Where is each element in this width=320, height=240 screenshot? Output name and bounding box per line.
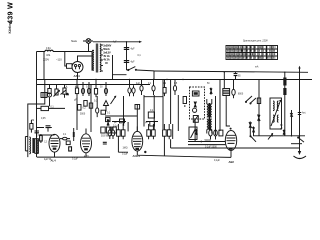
wire filter cap branch <box>126 42 128 70</box>
tick marks right column <box>290 66 301 117</box>
node dots on bus <box>76 71 285 80</box>
diode arrow D1 <box>210 88 212 95</box>
capacitor C12 <box>140 80 143 96</box>
switch S1 mains <box>127 67 137 71</box>
svg-text:5000: 5000 <box>80 114 86 116</box>
triangle indicator <box>104 101 109 112</box>
wire mains top <box>37 51 93 53</box>
resistor R2 <box>75 80 78 97</box>
wire ground link <box>291 143 302 145</box>
wire bias feed <box>28 80 45 158</box>
capacitor C1 4uF <box>124 48 135 51</box>
rectifier tube V1 AZ11 <box>72 62 83 79</box>
wire screen bus <box>37 79 312 81</box>
resistor R1 <box>67 64 73 69</box>
labels under tubes <box>44 134 79 161</box>
wire left of V5 <box>188 142 226 145</box>
node dot dark <box>144 151 146 153</box>
svg-text:AL4: AL4 <box>51 158 57 162</box>
resistor R3 <box>94 80 97 98</box>
pair P5 <box>209 127 218 140</box>
band switch section verticals <box>259 67 300 136</box>
svg-text:0,1µF: 0,1µF <box>122 154 129 156</box>
diode D5 <box>107 119 109 126</box>
resistor R8 dark <box>283 78 286 86</box>
svg-text:Spannungen gem. 220V: Spannungen gem. 220V <box>243 41 268 43</box>
transformer T1 secondary <box>100 44 101 72</box>
arrow variable <box>111 96 116 104</box>
vertical droppers <box>144 80 178 132</box>
fuse F1 <box>45 47 53 57</box>
wire cathode line <box>37 156 110 158</box>
wire HT rail 2 <box>154 71 308 72</box>
oval C10 <box>128 80 131 97</box>
svg-text:ACH1: ACH1 <box>133 154 141 158</box>
secondary tap stubs <box>101 45 103 71</box>
wire plate link <box>38 133 54 136</box>
svg-text:~110: ~110 <box>56 58 62 62</box>
capacitor C5 <box>104 82 107 96</box>
svg-text:T.A.: T.A. <box>64 85 68 88</box>
tube V2 AL4 <box>49 134 60 162</box>
box pair mid <box>148 110 154 126</box>
ground symbol <box>294 136 307 159</box>
tube V5 AB2 <box>225 131 236 165</box>
capacitor C19 <box>89 85 92 133</box>
wire grid chain <box>50 97 78 130</box>
capacitor C8 <box>106 118 111 122</box>
labels mid <box>136 83 210 85</box>
svg-text:0,1µF: 0,1µF <box>72 159 79 161</box>
tube V4 ACH1 <box>132 126 143 157</box>
coil box L2 <box>270 98 282 129</box>
capacitor C3 <box>81 82 84 96</box>
node dot rail <box>126 41 127 42</box>
switch S2 <box>61 90 70 95</box>
resistor R16 <box>40 134 43 143</box>
resistor R4 <box>37 106 66 110</box>
dashed box filter <box>190 87 205 142</box>
switch S3 <box>245 96 256 104</box>
arrow upright <box>268 134 273 140</box>
wire stubs mid-bottom <box>112 122 173 140</box>
node dots band <box>271 135 300 137</box>
wire left rail <box>36 52 38 158</box>
wire mains neutral <box>65 52 67 67</box>
svg-text:4µF: 4µF <box>131 62 136 64</box>
resistor R15 <box>84 101 87 107</box>
wire to tube V5 grid <box>226 96 230 127</box>
resistor R13 <box>63 85 66 98</box>
svg-text:AZ11: AZ11 <box>74 74 81 78</box>
capacitor C18 <box>46 126 51 132</box>
wire IF verticals <box>216 80 221 136</box>
capacitor C17 <box>60 137 70 140</box>
svg-text:Ant.: Ant. <box>302 112 306 115</box>
svg-text:4µF: 4µF <box>113 42 118 44</box>
hatch box B1 <box>223 89 230 96</box>
switch S5 <box>298 137 304 142</box>
oval C16 <box>232 80 235 99</box>
labels under V5 <box>205 140 221 162</box>
output transformer T2 <box>33 138 38 154</box>
tube V3 AF7 <box>81 129 92 159</box>
transformer T1 primary <box>93 50 94 70</box>
wire bias line <box>37 127 52 129</box>
wire rail corner <box>153 71 155 80</box>
wire tube stems <box>55 152 87 157</box>
svg-text:4µF: 4µF <box>136 83 141 85</box>
arrow rail end <box>139 41 142 43</box>
svg-text:Wid.: Wid. <box>46 55 51 57</box>
capacitor C2 4uF <box>124 61 135 64</box>
wire tube V5 bottom <box>199 151 231 158</box>
svg-text:8000: 8000 <box>238 94 244 96</box>
labels left of tube <box>122 147 129 155</box>
resistor R5 <box>30 120 33 133</box>
wire choke tap <box>113 55 127 80</box>
wire bottom mid <box>137 139 299 157</box>
svg-text:0,1µF 5000: 0,1µF 5000 <box>205 147 217 149</box>
pair P4 <box>163 124 171 156</box>
table voltage chart <box>226 41 278 60</box>
resistor R8b dark <box>283 88 286 95</box>
capacitor C20 <box>96 96 99 117</box>
svg-text:2M: 2M <box>163 83 166 85</box>
diode D4 <box>283 130 285 135</box>
wire speaker loop <box>25 137 28 151</box>
switch S4 <box>250 136 256 142</box>
potentiometer P1 <box>54 85 60 97</box>
diodes small <box>196 129 198 135</box>
field coil L3 <box>29 137 30 154</box>
pair P2 <box>114 122 128 152</box>
transformer T1 core <box>96 44 97 73</box>
resistor R10 <box>66 141 70 145</box>
svg-text:4V: 4V <box>105 62 108 65</box>
labels mid-left <box>74 100 98 116</box>
resistor R9 <box>257 98 260 104</box>
wire mains tap <box>43 52 45 80</box>
svg-text:4µF 50: 4µF 50 <box>44 159 52 161</box>
resistor R17 <box>135 105 140 110</box>
resistor R6 <box>163 80 166 97</box>
capacitor C14 <box>173 80 176 96</box>
svg-text:0,9A: 0,9A <box>46 47 51 50</box>
capacitor C22 <box>103 142 107 144</box>
wire rectifier cathode <box>77 73 79 80</box>
resistor R7 <box>183 97 186 107</box>
svg-text:AB2: AB2 <box>229 160 235 164</box>
diode pair D3 <box>249 122 255 136</box>
svg-text:1MΩ: 1MΩ <box>123 147 128 149</box>
svg-text:1M: 1M <box>31 120 34 122</box>
svg-text:Skala: Skala <box>71 41 77 43</box>
diode pair D2 <box>258 114 261 122</box>
oval C11 <box>132 85 135 96</box>
resistor R11 <box>69 147 72 151</box>
box B3 <box>219 130 223 136</box>
resistor R12 <box>48 85 51 94</box>
capacitor C4 <box>87 82 90 96</box>
capacitor C7 <box>101 110 111 114</box>
capacitor C6 <box>35 131 40 137</box>
svg-text:4µF: 4µF <box>75 86 80 88</box>
resistor R14 <box>78 105 87 111</box>
wire lamp feed <box>83 41 93 52</box>
labels small <box>64 85 103 88</box>
wire rail drop <box>223 72 225 88</box>
box B2 <box>189 127 197 140</box>
wire rectifier anode <box>78 56 93 62</box>
wire to HT bus <box>137 69 155 72</box>
capacitor C21 <box>234 72 242 79</box>
node dot <box>123 124 125 126</box>
wire AVC bus <box>37 84 150 86</box>
pair P1 <box>108 127 115 139</box>
wire osc <box>105 96 137 131</box>
capacitor C13 <box>152 80 155 96</box>
svg-text:0,05: 0,05 <box>41 118 46 120</box>
lamp LP1 dial lamp <box>71 39 91 44</box>
title Koerting 439 W (rotated) <box>6 2 15 34</box>
pickup jack J1 <box>41 93 52 98</box>
wire HT rail top <box>93 41 139 43</box>
trimmer <box>193 108 199 122</box>
capacitor C9 <box>113 119 125 128</box>
wire primary left <box>92 50 94 70</box>
svg-text:0,1µF: 0,1µF <box>214 160 221 162</box>
resistor R18 <box>73 128 75 141</box>
svg-text:mA: mA <box>255 66 259 69</box>
labels uuF <box>280 125 283 131</box>
svg-text:4µF: 4µF <box>131 49 136 51</box>
svg-text:439 W: 439 W <box>6 2 15 24</box>
padder caps row <box>101 127 117 138</box>
pair P3 <box>145 122 155 139</box>
IF transformer L1 <box>207 99 212 134</box>
wire band bottom <box>253 135 305 137</box>
transformer winding labels <box>103 44 111 65</box>
